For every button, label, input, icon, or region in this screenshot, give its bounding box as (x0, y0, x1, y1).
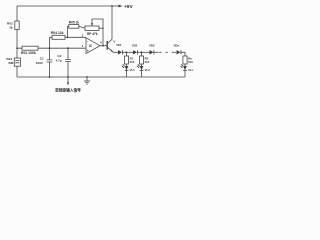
microphone B (electret mic) (14, 58, 20, 66)
wire RP right end to feedback vertical (99, 27, 103, 29)
svg-text:VD1: VD1 (116, 43, 122, 47)
svg-text:R01 100k: R01 100k (21, 51, 36, 55)
svg-text:3: 3 (82, 44, 84, 48)
svg-text:RP 47k: RP 47k (87, 32, 98, 36)
svg-text:IC: IC (89, 44, 93, 48)
diode VD1 (118, 50, 122, 54)
wire C2 vertical branch (67, 48, 69, 77)
wire input row to op-amp + input (17, 47, 86, 49)
wire diode chain (113, 51, 118, 53)
svg-text:6: 6 (100, 40, 102, 44)
wire RP wiper arm and top feedback wire (92, 19, 103, 46)
wire C1 vertical branch (49, 37, 51, 77)
ground (86, 76, 88, 78)
svg-text:V: V (113, 40, 115, 44)
svg-text:1k: 1k (9, 26, 13, 30)
svg-text:+: + (87, 49, 89, 53)
svg-text:VL2: VL2 (145, 68, 151, 72)
capacitor C1 (47, 60, 53, 62)
svg-text:至前级输入信号: 至前级输入信号 (55, 88, 81, 93)
svg-text:510: 510 (130, 60, 135, 64)
resistor R02 1k (mic bias) (15, 21, 19, 29)
wire left vertical (16, 6, 18, 77)
svg-text:510: 510 (145, 60, 150, 64)
node left T junction (16, 47, 18, 49)
svg-text:VLn: VLn (188, 68, 194, 72)
LED VL1 (125, 66, 129, 70)
wire R05 vertical branch (68, 26, 69, 37)
transistor V (106, 41, 108, 50)
node branch 1 junction (126, 51, 128, 53)
potentiometer RP 47k (85, 26, 99, 30)
resistor R2 510 (139, 56, 143, 64)
wire bottom ground rail (17, 76, 185, 78)
node branch 2 junction (141, 51, 143, 53)
+9V arrow and label (119, 5, 123, 8)
wire solid then dashed continuation (154, 51, 159, 53)
diode VD3 (150, 50, 154, 54)
node rail junction C1 (49, 76, 51, 78)
svg-text:C2: C2 (57, 54, 61, 58)
resistor R01 100k (22, 46, 38, 50)
node top junction (111, 5, 113, 7)
LED VL2 (140, 66, 144, 70)
svg-text:R04 12k: R04 12k (51, 31, 64, 35)
wire op-amp output (100, 45, 107, 47)
wire R04 row to inverting input (50, 36, 87, 38)
svg-text:510: 510 (188, 60, 193, 64)
svg-text:VDn: VDn (174, 43, 180, 47)
node junction C1/R04 branch (49, 47, 51, 49)
wire (137, 51, 149, 53)
wire top rail (17, 5, 112, 7)
resistor R1 510 (124, 56, 128, 64)
wire input signal stub with arrow (67, 77, 69, 83)
svg-text:VD3: VD3 (149, 43, 155, 47)
svg-text:4.7μ: 4.7μ (56, 59, 62, 63)
svg-text:+9V: +9V (124, 4, 133, 10)
wire R05 to RP (79, 26, 85, 28)
svg-text:VL1: VL1 (130, 68, 136, 72)
resistor R04 12k (52, 35, 65, 39)
branch 2: wire down (141, 52, 143, 77)
wire +9V stub (112, 5, 119, 7)
capacitor C2 4.7u (65, 60, 71, 62)
svg-text:2: 2 (82, 33, 84, 37)
op-amp IC (86, 38, 100, 54)
diode VD2 (133, 50, 137, 54)
svg-text:R05 1k: R05 1k (69, 20, 80, 24)
branch n: resistor Rn 510 (183, 56, 187, 64)
LED VLn (183, 66, 187, 70)
diode VDn (177, 50, 181, 54)
node rail junction C2 (67, 76, 69, 78)
branch 1: wire down (126, 52, 128, 77)
wire chain end corner down (181, 52, 185, 77)
node junction R05 branch (67, 36, 69, 38)
node output junction (102, 45, 104, 47)
resistor R05 1k (69, 25, 79, 29)
svg-text:1000: 1000 (36, 61, 43, 65)
svg-text:VD2: VD2 (132, 43, 138, 47)
node C2 branch junction (67, 47, 69, 49)
svg-text:BM: BM (9, 61, 14, 65)
wire (122, 51, 133, 53)
